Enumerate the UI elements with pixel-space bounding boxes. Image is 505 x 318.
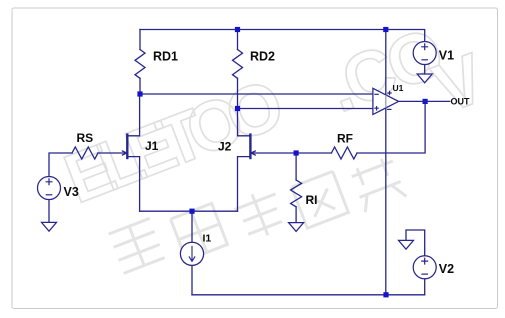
wire top rail V1 net xyxy=(140,30,425,42)
svg-text:V2: V2 xyxy=(439,262,454,276)
wire J2 gate to feedback node xyxy=(250,152,331,154)
resistor RI xyxy=(291,180,302,207)
resistor RF xyxy=(331,147,357,159)
svg-text:J1: J1 xyxy=(145,139,159,153)
wire J1 drain lead xyxy=(127,94,139,136)
transistor J2 xyxy=(250,133,256,159)
resistor RD1 xyxy=(135,50,145,79)
op-amp U1 xyxy=(373,88,399,114)
wire J1 source lead xyxy=(127,157,139,212)
junction feedback node J2 gate RF RI xyxy=(294,150,299,155)
svg-text:RD2: RD2 xyxy=(250,50,275,64)
svg-text:V3: V3 xyxy=(64,185,79,199)
ground below V1 xyxy=(417,74,432,83)
wire RD1 top lead xyxy=(139,30,141,50)
ground below RI xyxy=(289,223,304,232)
resistor RS xyxy=(72,147,98,159)
wire I1 top lead xyxy=(191,211,193,242)
svg-text:U1: U1 xyxy=(393,83,404,93)
junction top rail op-amp supply xyxy=(383,27,388,32)
wire J2 drain lead xyxy=(238,109,251,136)
svg-text:OUT: OUT xyxy=(451,96,471,106)
wire RI top lead xyxy=(295,153,297,180)
voltage source V1 xyxy=(413,42,436,65)
junction output node xyxy=(423,99,428,104)
junction node N1 RD1 J1 drain xyxy=(137,91,142,96)
svg-text:J2: J2 xyxy=(218,140,232,154)
wire bottom rail V2 net xyxy=(192,294,425,296)
wire tail rail sources of J1 J2 xyxy=(140,210,238,212)
junction tail node I1 xyxy=(189,209,194,214)
wire RI bottom lead xyxy=(295,207,297,223)
wire J1 gate lead xyxy=(98,152,127,154)
wire RS input net from V3 xyxy=(49,153,72,177)
wire node N2 row to op-amp noninverting input xyxy=(238,108,373,110)
wire RF to output xyxy=(357,101,425,153)
wire OUT from op-amp output xyxy=(399,100,451,102)
wire J2 source lead xyxy=(238,157,251,212)
wire RD2 top lead xyxy=(237,30,239,50)
wire node N1 row to op-amp inverting input xyxy=(140,93,373,95)
svg-text:RD1: RD1 xyxy=(153,50,178,64)
wire RD2 bottom lead xyxy=(237,78,239,108)
voltage source V3 xyxy=(38,177,61,200)
wire V3 bottom to ground stem xyxy=(48,200,50,223)
wire RD1 bottom lead xyxy=(139,78,141,94)
svg-text:RI: RI xyxy=(306,193,318,207)
svg-text:I1: I1 xyxy=(203,233,212,245)
wire V2 bottom lead xyxy=(424,279,426,295)
wire I1 bottom lead xyxy=(191,265,193,294)
current source I1 xyxy=(180,242,203,265)
voltage source V2 xyxy=(413,256,436,279)
resistor RD2 xyxy=(233,50,243,79)
ground at V2 plus xyxy=(399,240,414,249)
wire op-amp power rail vertical xyxy=(385,30,387,295)
svg-text:RS: RS xyxy=(77,131,94,145)
junction node N2 RD2 J2 drain xyxy=(235,106,240,111)
junction bottom rail op-amp supply xyxy=(383,292,388,297)
wire V2 plus to ground bend xyxy=(406,230,425,256)
watermark xyxy=(54,13,495,273)
wire V1 bottom to ground stem xyxy=(424,65,426,75)
svg-text:RF: RF xyxy=(337,132,353,146)
ground below V3 xyxy=(42,222,57,231)
transistor J1 xyxy=(122,133,128,159)
junction top rail RD2 xyxy=(235,27,240,32)
svg-text:V1: V1 xyxy=(439,49,454,63)
